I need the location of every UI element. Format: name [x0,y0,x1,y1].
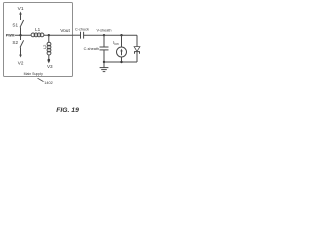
wire diode branch down [136,35,138,46]
wire box to C-chuck [73,34,81,36]
inductor L2 [47,42,51,55]
svg-text:FIG. 19: FIG. 19 [56,107,79,114]
svg-text:S2: S2 [12,40,18,45]
svg-text:Vout: Vout [60,28,70,34]
svg-text:V3: V3 [47,64,53,69]
svg-text:PWM: PWM [6,34,15,38]
wire top right [104,34,137,36]
capacitor C-sheath [100,47,109,50]
junction ground node [103,61,105,63]
svg-text:V2: V2 [18,60,24,65]
svg-text:Iion: Iion [113,40,119,46]
junction current source bottom [120,61,122,63]
current source arrow [120,49,122,56]
capacitor C-chuck [81,32,84,39]
wire L1 to Vout / box edge [44,34,73,36]
svg-text:S1: S1 [12,23,18,28]
ground [100,62,109,72]
junction node C [48,59,51,62]
current source I ion [117,47,127,57]
junction node A [19,34,21,36]
leader line to 1402 [38,78,44,81]
arrow to V2 [19,55,22,58]
wire C-chuck to V-sheath node [84,34,104,36]
switch S2 stub [20,35,22,40]
junction node B [48,34,50,36]
diode D1 [134,47,140,54]
junction node V-sheath [103,34,105,36]
svg-text:L2: L2 [42,44,47,49]
wire S1 to node [20,27,22,35]
wire main horizontal left [15,34,31,36]
wire C-sheath to ground wire [103,50,105,62]
arrow to V1 [19,12,22,21]
wire current source bottom [121,57,123,62]
svg-text:L1: L1 [35,27,41,32]
svg-text:V1: V1 [18,6,24,12]
bottom wire [104,61,137,63]
wire node B to L2 [48,35,50,42]
svg-text:C-chuck: C-chuck [75,28,89,32]
enclosure box Main Supply [4,3,73,77]
svg-text:C-sheath: C-sheath [84,47,99,51]
junction current source top [120,34,122,36]
wire L2 down [48,55,50,60]
svg-text:1402: 1402 [44,81,52,85]
switch S2 [20,40,24,47]
inductor L1 [31,33,44,37]
svg-text:V-sheath: V-sheath [97,28,112,32]
wire diode to bottom [136,52,138,62]
wire V-sheath to C-sheath [103,35,105,47]
wire current source top [121,35,123,47]
svg-text:Main Supply: Main Supply [24,72,44,76]
wire S2 down [20,48,22,56]
switch S1 [20,20,24,27]
arrow to V3 [48,61,51,64]
